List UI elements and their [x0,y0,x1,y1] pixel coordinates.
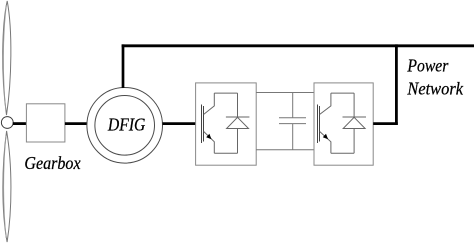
turbine blade bottom [3,131,11,242]
capacitor C top plate [279,117,306,119]
diode D2 top stem [353,93,355,117]
diode D2 bottom stem [353,129,355,154]
diode D1 top stem [237,93,239,117]
IGBT Q1 body bar [203,106,205,142]
converter box right [314,83,373,165]
converter box left [196,83,257,165]
IGBT Q1 top rail [214,92,237,94]
turbine blade top [3,1,11,115]
DC link top rail [256,92,314,94]
IGBT Q2 bottom rail [331,152,354,154]
IGBT Q2 gate bar [317,105,319,144]
turbine hub [1,117,13,129]
grid wire converter to riser [373,122,398,125]
stator wire DFIG top [122,44,125,88]
svg-text:Gearbox: Gearbox [24,153,80,173]
shaft hub to gearbox [13,122,28,125]
diode D2 cathode bar [343,116,367,118]
DC link bottom rail [256,149,314,151]
DFIG inner circle [95,96,155,156]
IGBT Q1 gate bar [201,105,203,144]
DFIG outer circle [87,88,163,164]
turbine blade top inner line [3,5,6,110]
turbine blade bottom inner line [4,136,7,238]
gearbox box [26,104,65,142]
IGBT Q2 body bar [319,106,321,142]
svg-text:DFIG: DFIG [107,115,145,135]
grid riser wire [395,44,398,125]
diode D1 triangle [227,117,249,128]
diode D1 cathode bar [226,116,250,118]
capacitor C top stem [292,93,294,118]
IGBT Q1 collector lead [204,93,215,114]
capacitor C bottom plate [279,123,306,125]
IGBT Q2 emitter arrow [323,134,328,139]
svg-text:Power: Power [407,55,450,75]
diode D1 bottom stem [237,129,239,154]
IGBT Q1 emitter lead [204,132,215,154]
capacitor C bottom stem [292,124,294,150]
IGBT Q2 emitter lead [320,132,331,154]
IGBT Q1 emitter arrow [206,134,211,139]
shaft gearbox to DFIG [65,122,88,125]
IGBT Q2 top rail [331,92,354,94]
IGBT Q1 bottom rail [214,152,237,154]
diode D2 triangle [343,117,365,128]
top bus wire [122,44,474,47]
rotor wire DFIG to converter [163,122,202,125]
IGBT Q2 collector lead [320,93,331,114]
svg-text:Network: Network [406,79,463,99]
